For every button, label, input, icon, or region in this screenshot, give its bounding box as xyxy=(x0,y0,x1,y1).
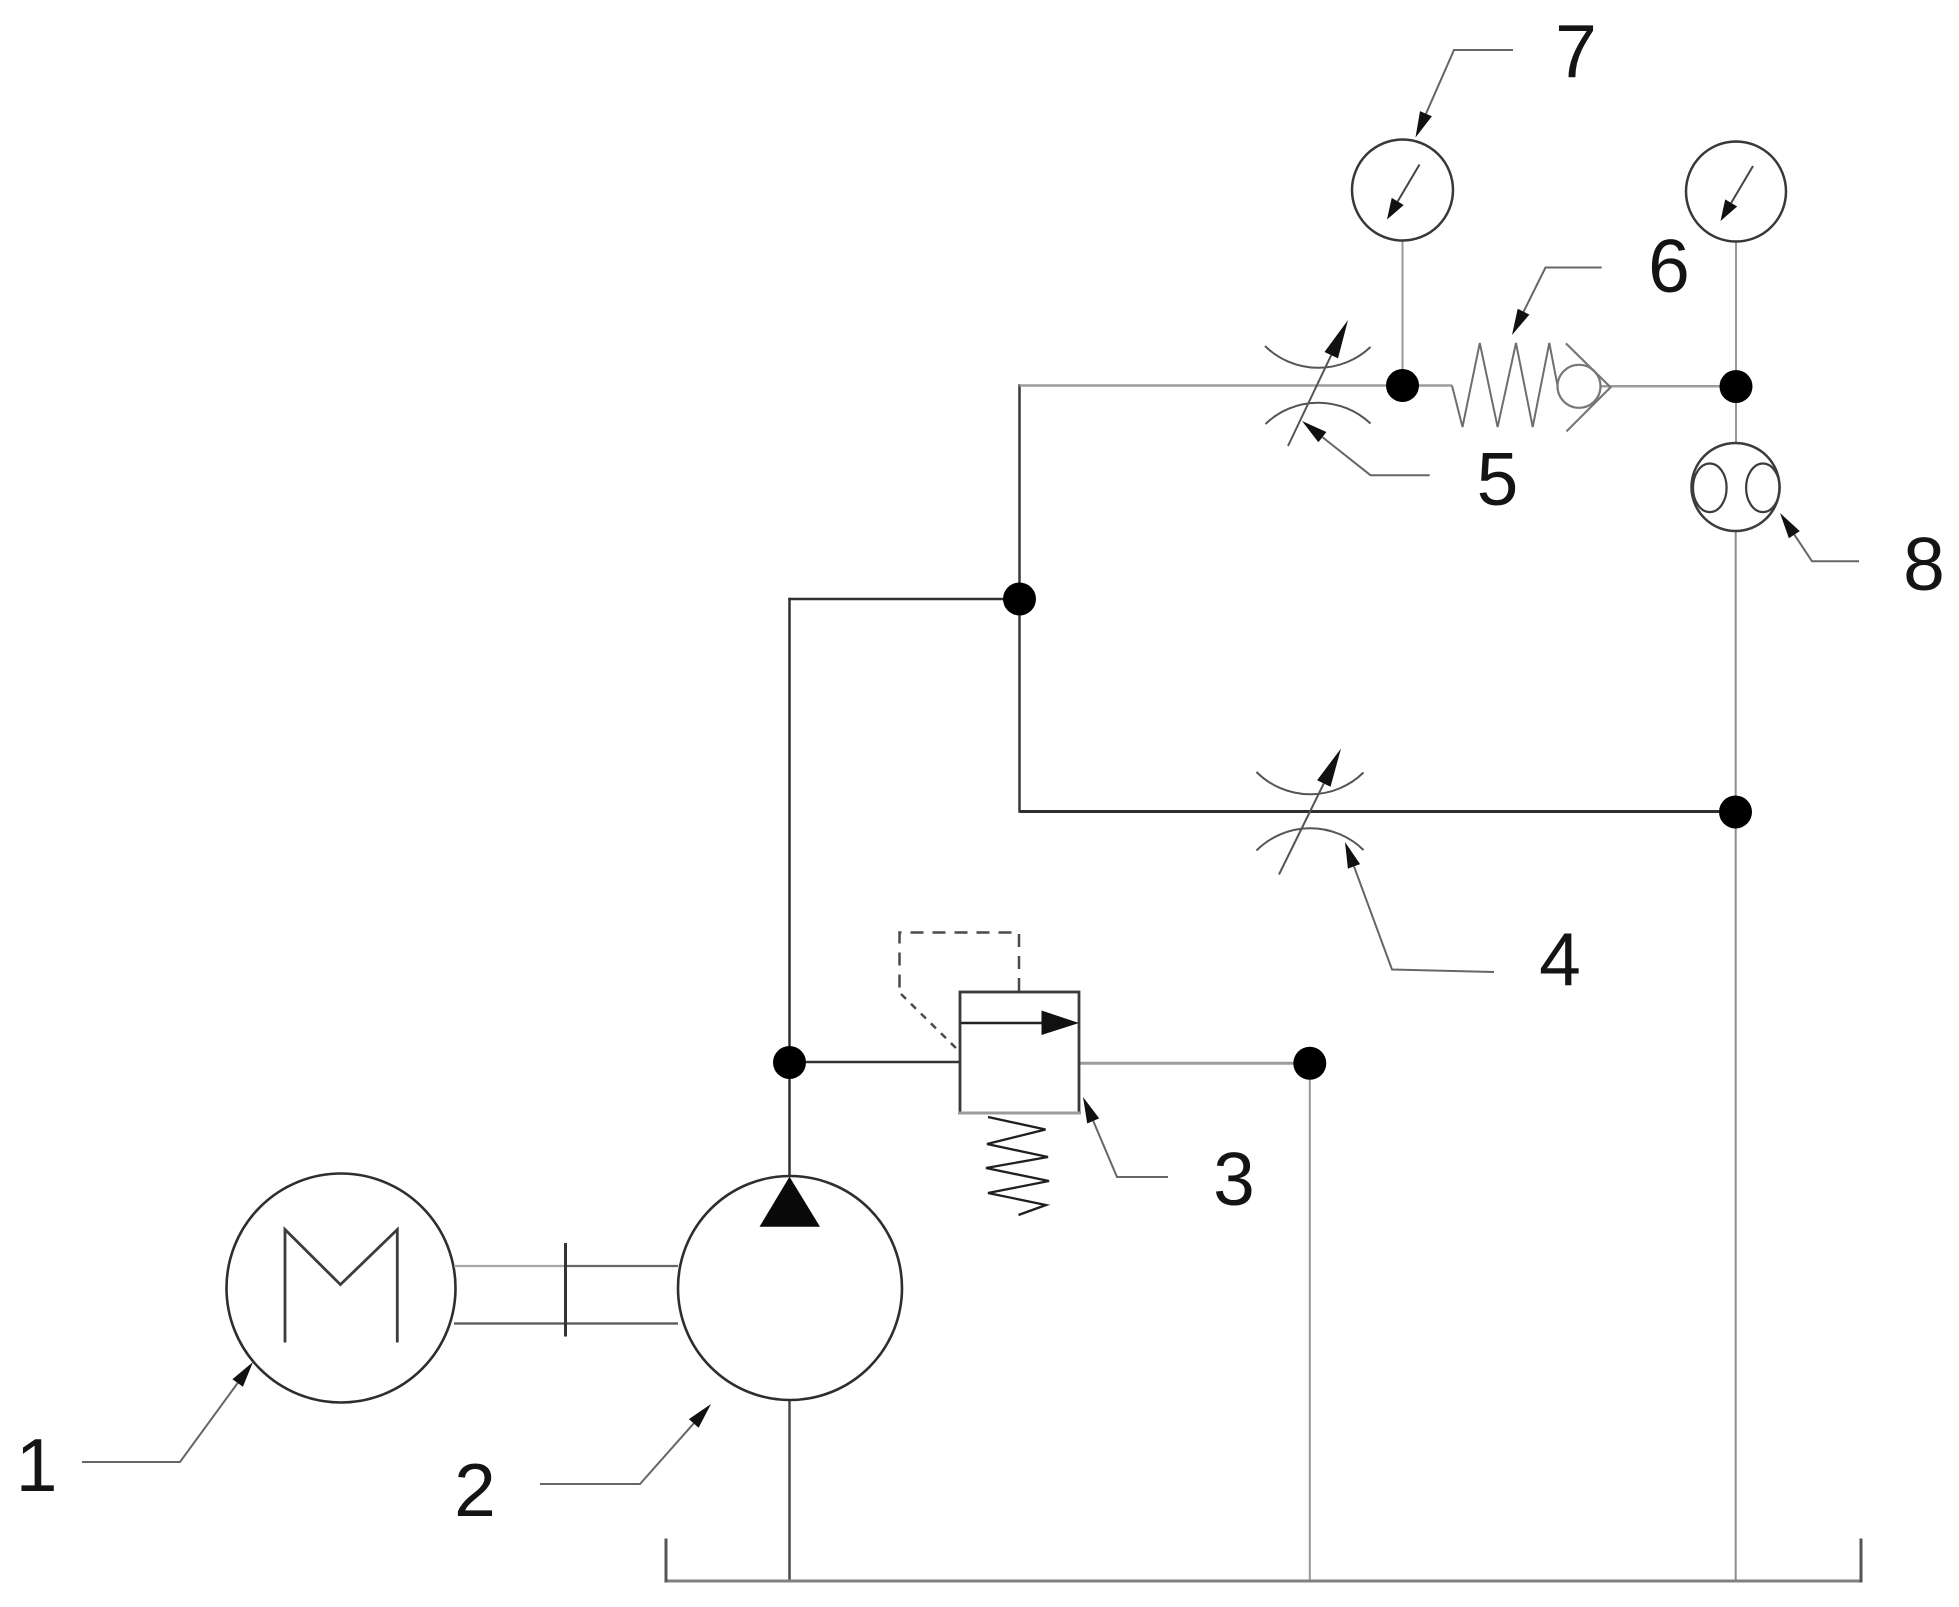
svg-text:8: 8 xyxy=(1903,522,1945,606)
svg-text:2: 2 xyxy=(454,1448,496,1532)
svg-text:7: 7 xyxy=(1555,9,1597,93)
svg-text:6: 6 xyxy=(1648,224,1690,308)
svg-text:4: 4 xyxy=(1539,917,1581,1001)
svg-text:3: 3 xyxy=(1213,1137,1255,1221)
svg-text:1: 1 xyxy=(16,1423,58,1507)
svg-text:5: 5 xyxy=(1477,437,1519,521)
